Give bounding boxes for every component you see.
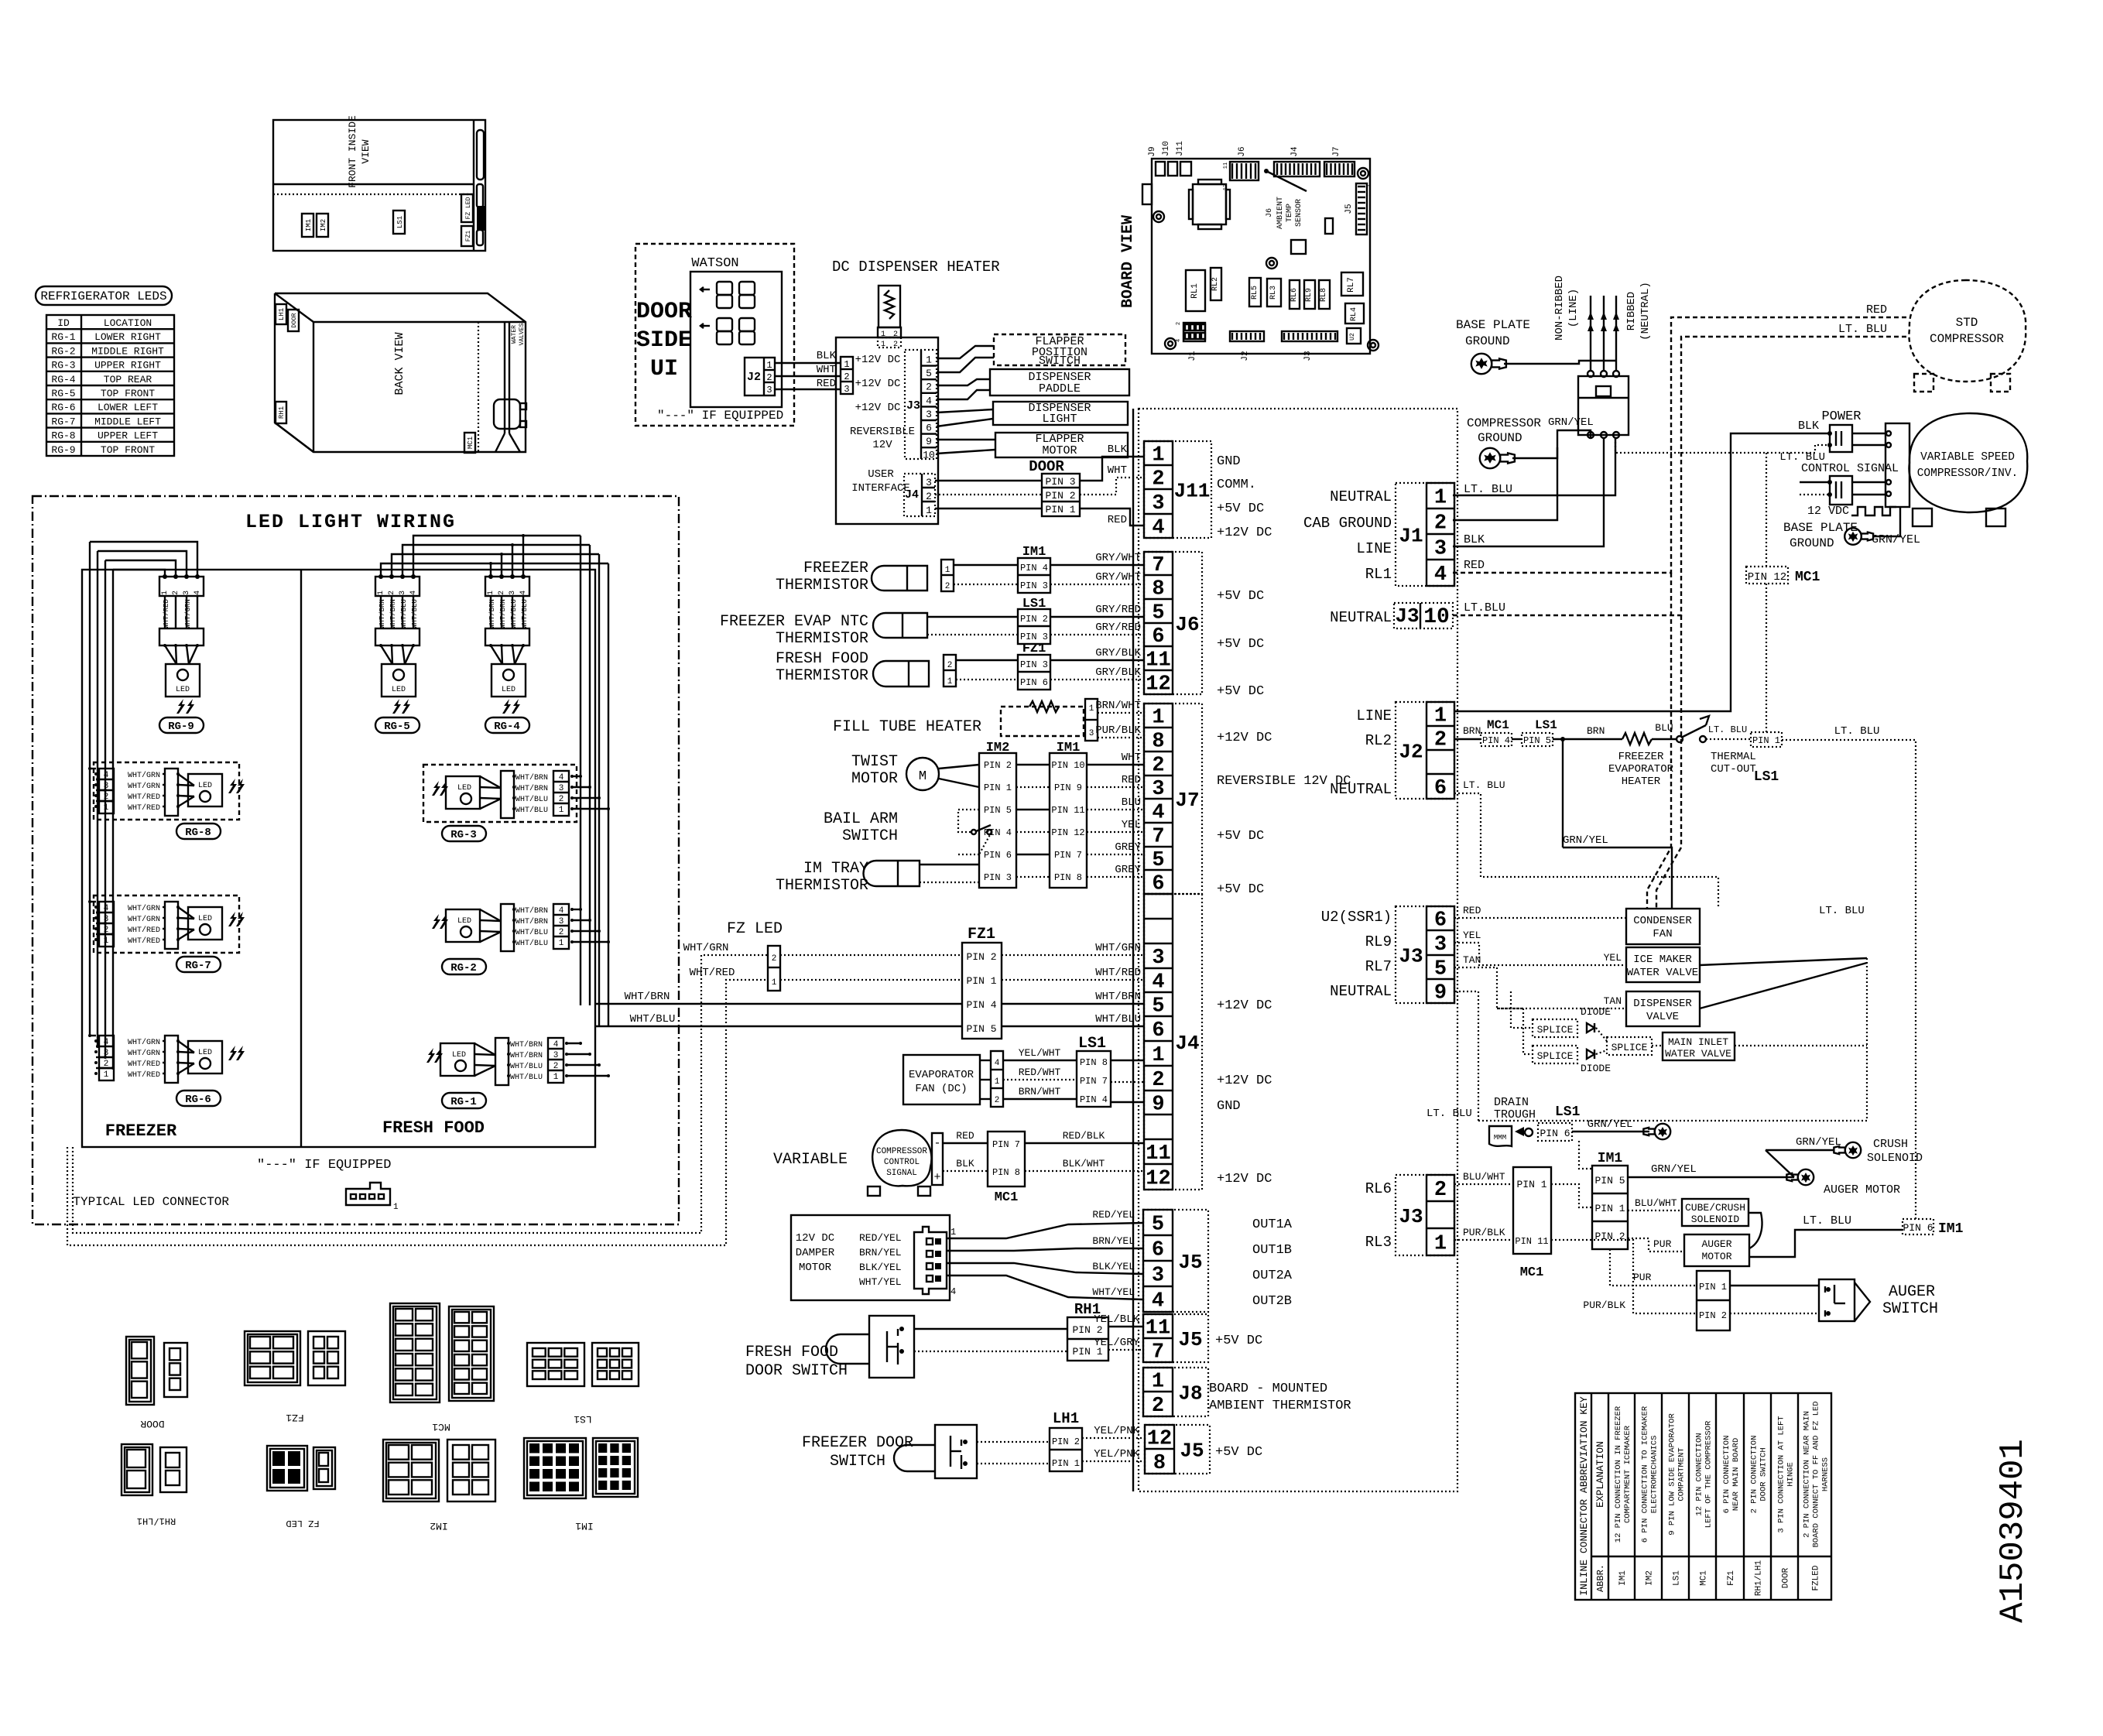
svg-text:12 PIN CONNECTION: 12 PIN CONNECTION (1695, 1433, 1704, 1515)
svg-text:2: 2 (498, 591, 506, 595)
svg-text:RH1/LH1: RH1/LH1 (1755, 1560, 1764, 1597)
svg-text:MC1: MC1 (432, 1421, 450, 1433)
svg-text:RG-3: RG-3 (51, 360, 75, 372)
svg-text:WHT/BLU: WHT/BLU (510, 1062, 543, 1071)
LED module RG-4 connector (485, 577, 529, 596)
LED module RG-7 body (188, 907, 222, 940)
svg-text:2: 2 (1434, 1179, 1447, 1202)
wire GRN/YEL IM1 PIN5 to auger lug (1628, 1176, 1794, 1178)
svg-text:2 PIN CONNECTION NEAR MAIN: 2 PIN CONNECTION NEAR MAIN (1803, 1411, 1812, 1538)
svg-text:LED: LED (176, 686, 190, 694)
svg-text:BLK/YEL: BLK/YEL (1092, 1261, 1135, 1272)
svg-text:WHT/RED: WHT/RED (128, 793, 160, 802)
wire LT BLU J1-1 (1453, 438, 1615, 495)
svg-text:FAN (DC): FAN (DC) (915, 1083, 967, 1095)
board view connector J2 (1230, 331, 1264, 341)
svg-text:PIN 5: PIN 5 (1523, 735, 1551, 746)
variable speed compressor blob (1909, 413, 2027, 512)
variable speed compressor feet (1913, 508, 1932, 526)
7-segment digits upper (717, 282, 732, 295)
drain ground lug (1655, 1124, 1670, 1139)
svg-text:RED: RED (817, 378, 836, 390)
svg-text:STD: STD (1956, 316, 1978, 330)
back view box (275, 293, 526, 452)
svg-text:NEUTRAL: NEUTRAL (1330, 983, 1392, 1000)
svg-text:NEUTRAL: NEUTRAL (1330, 781, 1392, 798)
svg-text:PIN 1: PIN 1 (1699, 1282, 1727, 1293)
svg-text:RED: RED (956, 1130, 974, 1142)
inline connector abbreviation key table (1575, 1393, 1831, 1600)
svg-text:WATER VALVE: WATER VALVE (1665, 1048, 1731, 1060)
LED module RG-1 lightning (426, 1048, 435, 1063)
svg-text:PIN 7: PIN 7 (1080, 1076, 1108, 1087)
svg-text:3: 3 (183, 591, 191, 595)
svg-text:PIN 11: PIN 11 (1051, 805, 1084, 816)
wire BLK J1-3 (1453, 438, 1604, 546)
svg-text:TAN: TAN (1463, 954, 1481, 966)
board view connector J11 (1180, 162, 1191, 176)
svg-text:MC1: MC1 (1795, 570, 1820, 585)
svg-text:WHT/BRN: WHT/BRN (1095, 991, 1141, 1003)
control signal +/- terminals (932, 1133, 943, 1185)
svg-text:3: 3 (766, 385, 772, 395)
svg-text:RH1/LH1: RH1/LH1 (137, 1515, 176, 1526)
svg-text:1: 1 (844, 359, 849, 370)
svg-text:FZ1: FZ1 (968, 926, 995, 943)
svg-text:FZLED: FZLED (1812, 1565, 1821, 1590)
door handle shapes (front view) (477, 130, 484, 180)
IM1 PIN6 box (1903, 1219, 1933, 1234)
wire LT BLU J2-6 (1454, 793, 1718, 909)
svg-text:RG-5: RG-5 (51, 388, 75, 399)
svg-text:6: 6 (1152, 625, 1164, 649)
std compressor blob (1909, 280, 2026, 382)
svg-text:COMPRESSOR: COMPRESSOR (1930, 332, 2004, 346)
freezer thermistor 2-pin (941, 560, 954, 591)
svg-text:NON-RIBBED: NON-RIBBED (1553, 276, 1566, 341)
svg-text:FZ LED: FZ LED (727, 920, 783, 938)
svg-text:1: 1 (1152, 1371, 1164, 1394)
svg-text:TOP FRONT: TOP FRONT (101, 388, 155, 399)
svg-text:RL7: RL7 (1347, 277, 1356, 293)
svg-text:EVAPORATOR: EVAPORATOR (1608, 763, 1674, 776)
svg-text:+5V DC: +5V DC (1217, 589, 1264, 604)
connector J5 fresh food door switch (1143, 1314, 1208, 1362)
svg-text:U2: U2 (1349, 333, 1356, 341)
svg-text:WHT/BLU: WHT/BLU (411, 599, 419, 628)
svg-text:FREEZER: FREEZER (105, 1121, 177, 1141)
wires IM2 to IM1 (1016, 764, 1050, 765)
svg-text:J2: J2 (1241, 351, 1250, 361)
svg-text:LED: LED (198, 1049, 212, 1057)
svg-text:2: 2 (766, 372, 772, 383)
svg-text:LT. BLU: LT. BLU (1838, 323, 1887, 336)
svg-text:PIN 7: PIN 7 (992, 1139, 1020, 1150)
wire BLU to J7-4 (1087, 809, 1144, 810)
wire RED/BLK MC1 to J4-11 (1025, 1142, 1144, 1144)
svg-text:LINE: LINE (1356, 540, 1392, 557)
splice 1 (1533, 1019, 1577, 1037)
svg-text:PUR/BLK: PUR/BLK (1095, 724, 1141, 737)
svg-text:DOOR SWITCH: DOOR SWITCH (1759, 1447, 1769, 1501)
board view connector J1 (1183, 323, 1205, 341)
svg-text:+12V DC: +12V DC (855, 402, 901, 414)
svg-text:LED: LED (198, 782, 212, 790)
dispenser paddle box (990, 369, 1129, 395)
LED module RG-1 mid connector (495, 1038, 509, 1085)
svg-text:RL1: RL1 (1365, 566, 1392, 583)
svg-text:SOLENOID: SOLENOID (1867, 1152, 1923, 1165)
LED module RG-7 pin connector (99, 902, 114, 947)
svg-text:GRY/WHT: GRY/WHT (1095, 571, 1141, 584)
svg-text:SOLENOID: SOLENOID (1691, 1214, 1740, 1225)
svg-text:BLU/WHT: BLU/WHT (1463, 1171, 1505, 1183)
wire J4-1 to door pin1 (935, 508, 1042, 509)
label RG-7 (176, 957, 221, 972)
LED module RG-5 body (382, 664, 416, 697)
svg-text:+5V DC: +5V DC (1215, 1445, 1262, 1460)
LED module RG-5 connector (375, 577, 420, 596)
svg-text:BOARD CONNECT TO FF AND FZ LED: BOARD CONNECT TO FF AND FZ LED (1812, 1401, 1821, 1547)
inline connector IM2 faces (383, 1440, 439, 1501)
svg-text:3: 3 (399, 591, 407, 595)
svg-text:INLINE CONNECTOR ABBREVIATION: INLINE CONNECTOR ABBREVIATION KEY (1578, 1396, 1590, 1596)
LED module RG-9 lightning (176, 699, 185, 714)
svg-text:+12V DC: +12V DC (1217, 1073, 1272, 1088)
svg-text:LT. BLU: LT. BLU (1834, 725, 1880, 738)
svg-text:4: 4 (1434, 563, 1447, 587)
svg-text:CONTROL: CONTROL (884, 1158, 920, 1167)
svg-text:RL2: RL2 (1365, 732, 1392, 749)
svg-text:GRY/BLK: GRY/BLK (1095, 647, 1141, 659)
fresh food right bus verticals (580, 536, 581, 1005)
svg-text:J3: J3 (906, 399, 920, 413)
connector J11 (1144, 441, 1211, 538)
wires J3 to flapper motor (937, 439, 995, 440)
wire LT BLU PIN1 to IM1 PIN6 (1782, 740, 1916, 1219)
svg-text:RED: RED (1463, 905, 1481, 916)
7-segment digits lower (717, 318, 732, 331)
svg-text:6 PIN CONNECTION TO ICEMAKER: 6 PIN CONNECTION TO ICEMAKER (1641, 1406, 1650, 1543)
thermal cut-out (1677, 736, 1683, 742)
svg-text:12 VDC: 12 VDC (1807, 505, 1849, 518)
svg-text:SPLICE: SPLICE (1612, 1042, 1648, 1053)
inline connector DOOR faces (126, 1337, 154, 1405)
LED module RG-4 body (491, 664, 526, 697)
svg-text:J11: J11 (1174, 480, 1211, 503)
svg-text:3: 3 (1152, 778, 1164, 801)
svg-text:BLK: BLK (817, 350, 837, 362)
svg-text:BLK: BLK (1108, 443, 1128, 456)
svg-text:5: 5 (1152, 602, 1164, 625)
svg-text:(NEUTRAL): (NEUTRAL) (1639, 282, 1652, 341)
condenser fan box (1626, 909, 1700, 944)
wire GREY to J7-5 (1087, 854, 1144, 855)
label FZ LED (front view) (461, 194, 473, 222)
svg-text:RL5: RL5 (1251, 286, 1259, 300)
fill tube heater pins 1 3 (1085, 699, 1098, 741)
svg-text:1: 1 (947, 677, 953, 687)
svg-text:10: 10 (1423, 605, 1450, 629)
LS1 PIN1 box (1751, 732, 1782, 747)
svg-text:WHT/RED: WHT/RED (128, 926, 160, 935)
svg-text:PIN 9: PIN 9 (1054, 782, 1082, 793)
svg-text:DOOR: DOOR (1782, 1567, 1791, 1588)
auger motor ground lug (1798, 1169, 1814, 1185)
svg-text:LED: LED (392, 686, 406, 694)
wires twist motor to IM2 (939, 765, 979, 769)
svg-text:WHT/GRN: WHT/GRN (184, 599, 192, 628)
wire RED door to J11-4 (1080, 508, 1144, 526)
svg-text:J5: J5 (1180, 1440, 1204, 1463)
water valve assembly (back view) (494, 399, 520, 429)
svg-text:AMBIENT: AMBIENT (1276, 197, 1285, 229)
svg-text:12: 12 (1146, 673, 1170, 697)
connector J4 (user interface) (904, 474, 935, 516)
auger pin block (1697, 1271, 1730, 1330)
label IM2 (front view) (317, 214, 328, 237)
svg-text:RG-4: RG-4 (494, 721, 520, 733)
svg-text:RG-5: RG-5 (384, 721, 410, 733)
svg-text:WHT: WHT (817, 364, 836, 376)
svg-text:DOOR: DOOR (1029, 458, 1064, 475)
LED module RG-6 pin connector (99, 1036, 114, 1080)
wire RED J2-UI (775, 389, 841, 390)
wire LT BLU auger motor to IM1 PIN6 (1749, 1230, 1903, 1257)
svg-text:WHT/GRN: WHT/GRN (1095, 942, 1141, 954)
svg-text:J5: J5 (1178, 1328, 1202, 1351)
svg-text:TAN: TAN (1604, 995, 1622, 1007)
svg-text:MOTOR: MOTOR (1701, 1251, 1731, 1262)
splice wiring (1511, 991, 1533, 1028)
svg-text:NEUTRAL: NEUTRAL (1330, 609, 1392, 626)
svg-text:+5V DC: +5V DC (1217, 637, 1264, 652)
wire RED J3-6 to condenser fan (1454, 917, 1626, 919)
svg-text:AMBIENT THERMISTOR: AMBIENT THERMISTOR (1209, 1399, 1351, 1413)
svg-text:4: 4 (1152, 517, 1164, 540)
svg-text:YEL: YEL (1604, 952, 1622, 964)
svg-text:PIN 8: PIN 8 (1054, 872, 1082, 883)
svg-text:GRN/YEL: GRN/YEL (1563, 834, 1608, 847)
svg-text:LS1: LS1 (1078, 1035, 1106, 1053)
svg-text:+5V DC: +5V DC (1217, 882, 1264, 897)
svg-text:WHT/RED: WHT/RED (690, 967, 735, 979)
svg-text:COMPARTMENT: COMPARTMENT (1677, 1447, 1687, 1501)
svg-text:MIDDLE LEFT: MIDDLE LEFT (94, 416, 161, 427)
svg-text:U2(SSR1): U2(SSR1) (1321, 909, 1392, 926)
svg-text:RL4: RL4 (1350, 307, 1358, 321)
power cord plug block (1578, 376, 1629, 435)
wire MC1 PIN1 to IM1 PIN1 (1551, 1184, 1592, 1207)
svg-text:+12V DC: +12V DC (1217, 998, 1272, 1013)
board view relay RL9 (1304, 280, 1315, 309)
svg-text:WHT/GRN: WHT/GRN (128, 782, 160, 791)
svg-text:"---" IF EQUIPPED: "---" IF EQUIPPED (257, 1158, 391, 1173)
evaporator fan 3-pin (991, 1051, 1003, 1107)
svg-text:FREEZER: FREEZER (1618, 751, 1664, 763)
svg-text:LED: LED (452, 1051, 466, 1060)
svg-text:LINE: LINE (1356, 707, 1392, 724)
svg-text:RG-1: RG-1 (450, 1096, 477, 1108)
svg-text:BOARD VIEW: BOARD VIEW (1119, 215, 1137, 308)
svg-text:BACK VIEW: BACK VIEW (393, 332, 406, 395)
svg-text:J6: J6 (1238, 146, 1247, 156)
svg-text:WATER: WATER (511, 325, 518, 344)
svg-text:4: 4 (409, 591, 418, 595)
dispenser valve box (1626, 991, 1700, 1026)
drain trough faucet (1515, 1127, 1524, 1136)
svg-text:DC DISPENSER HEATER: DC DISPENSER HEATER (832, 259, 1000, 276)
svg-text:PIN 3: PIN 3 (1045, 476, 1075, 488)
LED module RG-1 pin connector (548, 1038, 563, 1083)
svg-text:DIODE: DIODE (1581, 1063, 1611, 1074)
svg-text:CAB GROUND: CAB GROUND (1303, 515, 1392, 532)
svg-text:DOOR: DOOR (140, 1418, 164, 1430)
svg-text:+12V DC: +12V DC (1217, 1172, 1272, 1186)
svg-text:6: 6 (1152, 1239, 1164, 1262)
LED module RG-6 body (188, 1041, 222, 1073)
wires damper to J5 (947, 1223, 1143, 1238)
svg-text:IM TRAY: IM TRAY (803, 860, 868, 878)
svg-text:2: 2 (926, 491, 932, 502)
wire PIN6 to IM1 PIN5 (1579, 1141, 1592, 1169)
board view relay RL6 (1290, 280, 1300, 309)
svg-text:9: 9 (1152, 1094, 1164, 1117)
svg-text:PUR: PUR (1653, 1238, 1672, 1250)
wire BLK door to J11-1 (1080, 457, 1144, 481)
svg-text:GROUND: GROUND (1465, 334, 1510, 348)
svg-text:LT.BLU: LT.BLU (1464, 601, 1505, 615)
wire BLU/WHT IM1 PIN1 to cube crush (1628, 1210, 1682, 1211)
svg-text:RG-7: RG-7 (51, 416, 75, 427)
svg-text:GRY/BLK: GRY/BLK (1095, 666, 1141, 679)
svg-text:RG-9: RG-9 (168, 721, 194, 733)
wire BRN/WHT to LS1 pin4 to J4-9 (1003, 1098, 1077, 1100)
wire YEL to J7-7 (1087, 831, 1144, 833)
wire PUR IM1 PIN2 to auger motor (1628, 1238, 1684, 1251)
svg-text:J4: J4 (905, 488, 919, 502)
label MC1 (back view) (464, 433, 475, 453)
wire GRY/WHT pin3 to J6-8 (954, 584, 1018, 585)
board view connector J6 (1230, 162, 1259, 180)
svg-text:CUT-OUT: CUT-OUT (1711, 763, 1756, 776)
svg-text:MIDDLE RIGHT: MIDDLE RIGHT (91, 345, 164, 357)
svg-text:CONTROL SIGNAL: CONTROL SIGNAL (1801, 462, 1899, 475)
svg-text:1: 1 (1366, 184, 1372, 187)
svg-text:HINGE: HINGE (1786, 1462, 1796, 1487)
svg-text:FRESH FOOD: FRESH FOOD (776, 650, 868, 668)
LED module RG-1 body (440, 1043, 474, 1076)
wire WHT/BRN led harness to FZ1 (595, 1003, 962, 1005)
wire BLK J2-UI (775, 362, 841, 364)
LED module RG-8 pin connector (99, 769, 114, 813)
svg-text:DAMPER: DAMPER (796, 1247, 835, 1259)
svg-text:PUR/BLK: PUR/BLK (1583, 1299, 1625, 1311)
svg-text:WHT/BRN: WHT/BRN (510, 1040, 543, 1049)
svg-text:WHT: WHT (1122, 752, 1141, 764)
LED module RG-2 pin connector (553, 904, 569, 949)
wire J4-2 to door pin2 (935, 494, 1042, 495)
svg-text:CUBE/CRUSH: CUBE/CRUSH (1685, 1202, 1745, 1214)
cube/crush solenoid box (1682, 1199, 1749, 1226)
flapper motor box (995, 433, 1128, 457)
svg-text:PIN 2: PIN 2 (1045, 490, 1075, 502)
svg-text:WHT/BLU: WHT/BLU (515, 806, 548, 815)
svg-text:J9: J9 (1148, 146, 1157, 156)
svg-text:WHT/BRN: WHT/BRN (515, 784, 548, 793)
svg-text:LT. BLU: LT. BLU (1464, 483, 1512, 496)
LED module RG-5 lower connector (375, 628, 420, 645)
svg-text:5: 5 (1152, 995, 1164, 1019)
svg-text:EVAPORATOR: EVAPORATOR (909, 1069, 974, 1081)
svg-text:PIN 5: PIN 5 (1594, 1175, 1625, 1186)
svg-text:BAIL ARM: BAIL ARM (824, 810, 898, 828)
svg-text:LED LIGHT WIRING: LED LIGHT WIRING (245, 511, 456, 533)
svg-text:2 PIN CONNECTION: 2 PIN CONNECTION (1750, 1436, 1759, 1514)
svg-text:J1: J1 (1188, 351, 1197, 361)
LED module RG-3 body (446, 776, 480, 809)
svg-text:FREEZER EVAP NTC: FREEZER EVAP NTC (720, 613, 868, 631)
svg-text:GRN/YEL: GRN/YEL (1872, 533, 1920, 546)
svg-text:J3: J3 (1399, 945, 1423, 968)
svg-text:RL8: RL8 (1320, 288, 1328, 302)
svg-text:3: 3 (926, 409, 932, 420)
svg-text:6: 6 (1152, 1019, 1164, 1043)
wires J3 to flapper position switch (937, 346, 994, 358)
svg-text:YEL/PNK: YEL/PNK (1094, 1448, 1139, 1460)
wire WHT to J7-2 (1087, 764, 1144, 765)
svg-text:1: 1 (945, 566, 950, 575)
svg-text:2: 2 (1434, 729, 1447, 752)
connector J3 pin10 (1394, 603, 1453, 628)
svg-text:RG-8: RG-8 (51, 430, 75, 442)
svg-text:LIGHT: LIGHT (1042, 413, 1077, 426)
dispenser light box (993, 402, 1128, 425)
svg-text:2: 2 (388, 591, 396, 595)
svg-text:FRESH FOOD: FRESH FOOD (745, 1344, 838, 1361)
fresh food door switch body (869, 1316, 914, 1378)
svg-text:FRESH FOOD: FRESH FOOD (382, 1118, 485, 1138)
svg-text:J10: J10 (1162, 141, 1171, 156)
svg-text:WHT/BLU: WHT/BLU (521, 599, 529, 628)
svg-text:LED: LED (457, 784, 471, 793)
LED module RG-6 lightning (228, 1046, 237, 1060)
svg-text:PIN 6: PIN 6 (1903, 1222, 1933, 1234)
svg-text:YEL/WHT: YEL/WHT (1019, 1047, 1061, 1059)
compressor feet (868, 1186, 880, 1196)
wire BLK/WHT MC1 to J4-12 (1025, 1170, 1144, 1172)
wire GREY to J7-6 (1087, 876, 1144, 878)
LED module RG-3 mid connector (501, 771, 514, 818)
svg-text:SWITCH: SWITCH (842, 827, 898, 845)
svg-text:SWITCH: SWITCH (1039, 354, 1081, 368)
svg-text:BRN/YEL: BRN/YEL (1092, 1235, 1135, 1247)
svg-text:RL6: RL6 (1290, 288, 1299, 302)
svg-text:4: 4 (926, 395, 932, 406)
wire WHT/BLU led harness to FZ1 (595, 1026, 962, 1027)
svg-text:PIN 3: PIN 3 (1020, 580, 1048, 591)
svg-text:7: 7 (1152, 1341, 1164, 1364)
svg-text:1: 1 (1434, 487, 1447, 510)
wire LT.BLU J3-10 to std compressor (1453, 337, 1908, 615)
label DOOR (back view) (288, 310, 299, 331)
svg-text:PIN 7: PIN 7 (1054, 850, 1082, 861)
dc dispenser heater connector 1 2 (878, 327, 901, 337)
svg-text:NEAR MAIN BOARD: NEAR MAIN BOARD (1731, 1438, 1741, 1512)
svg-text:RIBBED: RIBBED (1625, 292, 1638, 330)
svg-text:WHT/RED: WHT/RED (128, 1060, 160, 1069)
svg-text:PUR/BLK: PUR/BLK (1463, 1227, 1505, 1238)
